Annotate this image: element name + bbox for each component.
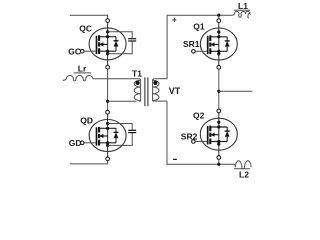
wire (T1 secondary bottom lead)	[155, 100, 168, 102]
wire (Lr to T1 primary top)	[93, 78, 139, 80]
inductor Lr	[63, 73, 93, 81]
node (SR midpoint)	[217, 90, 220, 93]
mosfet QC	[80, 19, 126, 69]
svg-text:L1: L1	[238, 1, 248, 11]
svg-text:L2: L2	[239, 169, 249, 179]
svg-text:Q2: Q2	[193, 110, 205, 120]
node (Q1 drain junction)	[217, 14, 220, 17]
inductor L1	[232, 10, 250, 18]
node (negative rail junction)	[217, 163, 220, 166]
wire (midpoint output)	[219, 90, 253, 92]
svg-text:T1: T1	[132, 68, 142, 78]
svg-text:QD: QD	[80, 115, 93, 125]
svg-text:VT: VT	[169, 86, 181, 96]
svg-text:GD: GD	[69, 138, 82, 148]
svg-text:GC: GC	[68, 46, 81, 56]
mosfet QD	[80, 110, 126, 160]
svg-text:+: +	[172, 16, 177, 25]
mosfet Q1	[192, 19, 238, 69]
capacitor (QD snubber)	[108, 124, 137, 146]
svg-text:QC: QC	[79, 23, 92, 33]
label -	[173, 158, 177, 160]
svg-text:SR2: SR2	[181, 132, 198, 142]
node (T1 primary polarity dot)	[136, 81, 140, 85]
svg-text:Lr: Lr	[78, 63, 87, 73]
wire (QD source to bottom left)	[70, 161, 108, 164]
wire (secondary negative rail)	[167, 101, 234, 164]
svg-text:SR1: SR1	[183, 39, 200, 49]
node (primary switch junction)	[106, 100, 109, 103]
wire (to T1 primary bottom)	[108, 100, 137, 102]
transformer T1	[134, 77, 159, 106]
wire (secondary positive rail)	[167, 15, 232, 78]
wire (Q2 source stub)	[218, 159, 220, 164]
mosfet Q2	[192, 109, 238, 159]
inductor L2	[234, 161, 251, 169]
wire (stub to Q1 drain)	[218, 15, 220, 19]
wire (T1 secondary top lead)	[155, 78, 168, 80]
node (T1 secondary polarity dot)	[153, 81, 157, 85]
wire (Q1 source to Q2 drain)	[218, 69, 220, 109]
wire (QC source to QD drain)	[107, 69, 109, 110]
svg-text:Q1: Q1	[193, 21, 205, 31]
capacitor (QC snubber)	[108, 32, 137, 54]
wire	[70, 15, 108, 19]
